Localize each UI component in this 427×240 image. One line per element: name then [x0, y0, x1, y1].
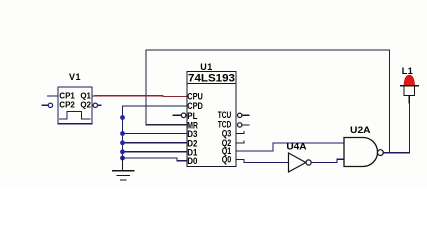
junction dot bus-D1 — [120, 149, 125, 154]
svg-text:U1: U1 — [200, 62, 213, 72]
wire Q1 to NAND input A — [236, 143, 344, 151]
wire bus to D3 — [123, 133, 188, 135]
wire red clock wire V1.Q1 to U1.CPU — [95, 95, 187, 98]
svg-text:CPD: CPD — [187, 101, 203, 111]
pin Q3 stub — [236, 132, 244, 134]
junction dot bus-D2 — [120, 140, 125, 145]
lamp L1 body box — [404, 86, 415, 96]
pin CP1 stub — [48, 95, 59, 97]
svg-text:Q2: Q2 — [80, 101, 91, 110]
IC U1 74LS193 box — [187, 72, 236, 167]
pin Q2 stub — [236, 141, 244, 143]
lamp L1 red dome — [404, 75, 414, 85]
svg-text:74LS193: 74LS193 — [188, 73, 235, 85]
wire Q0 to inverter input — [236, 160, 288, 163]
ground symbol — [113, 171, 134, 180]
inverter U4A bubble — [306, 160, 311, 165]
wire inverter output to NAND input B — [311, 159, 344, 162]
lamp L1 lead — [408, 96, 410, 104]
NAND U2A bubble — [378, 150, 384, 156]
pin Q2 circle and lead — [93, 103, 97, 107]
svg-text:D0: D0 — [187, 156, 197, 166]
ground lead — [122, 158, 124, 171]
wire top loop left vertical to MR — [145, 50, 147, 125]
svg-text:Q3: Q3 — [222, 128, 232, 138]
pin TCD bubble and lead — [238, 123, 242, 127]
wire top feedback loop horizontal — [146, 49, 390, 51]
wire bus to D2 — [123, 142, 188, 144]
wire top loop right vertical to NAND output net — [389, 50, 391, 153]
junction dot (bus) — [120, 115, 125, 120]
svg-text:CP2: CP2 — [59, 101, 75, 110]
wire bus to D1 — [123, 151, 188, 153]
pin TCU bubble and lead — [238, 113, 242, 117]
U1 left pin names — [187, 92, 203, 167]
wire bus to CPD — [123, 105, 188, 107]
svg-text:TCU: TCU — [218, 110, 232, 120]
svg-text:V1: V1 — [69, 72, 81, 82]
svg-text:Q1: Q1 — [80, 91, 91, 100]
NAND gate U2A — [344, 138, 378, 167]
pin PL lead and bubble (unconnected) — [173, 114, 181, 116]
junction dot bus-D0 — [120, 156, 125, 161]
svg-text:CP1: CP1 — [59, 91, 75, 100]
svg-text:PL: PL — [187, 111, 197, 121]
wire NAND output to L1 — [383, 96, 409, 153]
U1 right pin names — [218, 110, 232, 164]
svg-text:Q0: Q0 — [222, 154, 232, 164]
svg-text:L1: L1 — [402, 66, 414, 76]
V1 pin labels — [59, 91, 91, 109]
wire MR to U1 — [146, 124, 187, 126]
svg-text:U2A: U2A — [350, 125, 371, 135]
inverter U4A — [289, 153, 306, 172]
wire bus to D0 with jog — [123, 158, 188, 161]
svg-text:CPU: CPU — [187, 92, 203, 102]
lamp L1 cap bar — [401, 85, 419, 87]
pin CP2 lead and circle — [42, 104, 48, 106]
junction dot bus-D3 — [120, 131, 125, 136]
wire ground bus vertical — [122, 106, 124, 158]
U1 title separator line — [187, 82, 236, 84]
pin Q1 stub — [92, 95, 95, 97]
svg-text:U4A: U4A — [286, 142, 307, 152]
pulse source V1 — [58, 87, 92, 124]
